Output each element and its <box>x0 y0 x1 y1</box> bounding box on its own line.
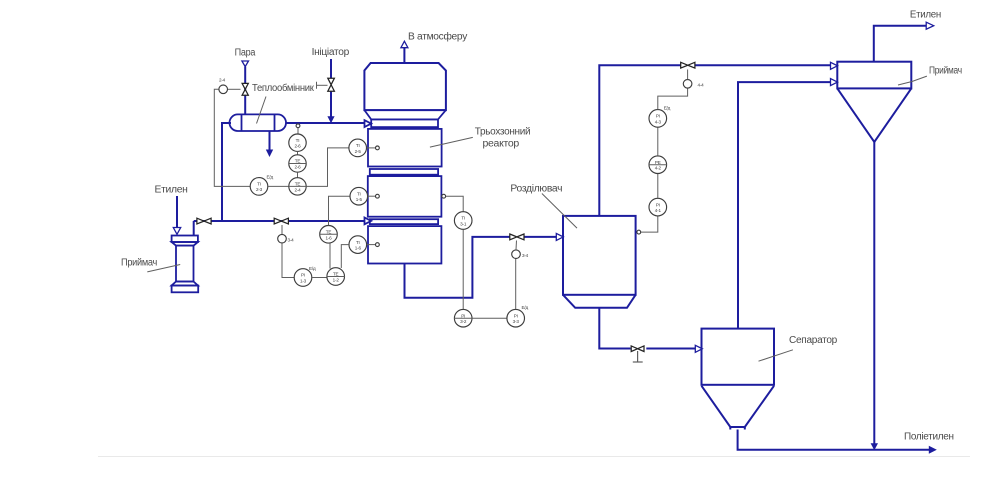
wire between 2-3 and chain bottom <box>268 185 289 187</box>
vessel Розділювач <box>563 216 636 308</box>
wire down <box>462 230 464 310</box>
neck band <box>371 119 438 127</box>
heat exchanger Теплообмінник (capsule) <box>230 114 287 131</box>
wire actuator to valve <box>687 70 689 80</box>
reactor Трьохзонний реактор <box>364 63 446 264</box>
svg-text:ТІ: ТІ <box>357 191 361 196</box>
valve on bottoms line <box>631 346 644 352</box>
svg-text:2-6: 2-6 <box>294 144 301 149</box>
svg-text:ТЕ: ТЕ <box>295 182 301 187</box>
wire: Розділювач bottoms to Сепаратор <box>599 308 630 349</box>
nub on Розділювач right wall <box>637 230 641 234</box>
leader <box>542 194 577 229</box>
arrow: steam inlet open triangle down <box>242 61 249 67</box>
valve stem T <box>637 351 639 362</box>
svg-text:Е/д: Е/д <box>267 175 274 180</box>
arrow: feed into reactor ring B <box>365 218 372 225</box>
arrow: open up <box>401 41 408 48</box>
instrument ТІ 2-5 (zone 1) <box>349 139 367 157</box>
valve V2 (control) on feed header <box>274 218 288 224</box>
wire from chain to zone1 indicator <box>306 148 349 187</box>
wire <box>297 151 299 154</box>
instrument РІ 3-3 <box>507 309 525 327</box>
svg-text:РЕ: РЕ <box>655 160 661 165</box>
arrow: into reactor neck <box>365 120 372 127</box>
wire <box>312 277 327 279</box>
svg-text:3-4: 3-4 <box>288 238 295 243</box>
instrument РІ 3-2 (panel) <box>454 309 472 327</box>
arrow: initiator joins HX outlet line (filled) <box>327 116 334 123</box>
svg-text:Е/д: Е/д <box>309 266 316 271</box>
svg-text:3-3: 3-3 <box>513 319 520 324</box>
wire: HX outlet to reactor top inlet <box>286 122 366 124</box>
arrow: ethylene out (open) <box>926 22 934 29</box>
wire up <box>657 127 659 155</box>
arrow: open V into left receiver <box>173 228 180 235</box>
svg-text:ТІ: ТІ <box>461 216 465 221</box>
valve on initiator line <box>328 78 335 91</box>
instrument РІ 1-3 <box>294 269 312 287</box>
leader <box>898 76 927 85</box>
vessel right receiver (Приймач) <box>837 62 911 142</box>
wire to ТІ 3-1 <box>446 196 463 211</box>
dome <box>364 63 446 110</box>
ring A <box>370 169 438 175</box>
svg-text:2-3: 2-3 <box>256 187 263 192</box>
svg-text:Приймач: Приймач <box>929 66 962 77</box>
svg-text:Е/д: Е/д <box>664 106 671 111</box>
wire+arrow: HX condensate drain (filled down arrow) <box>269 131 271 150</box>
tube sheet lines <box>241 114 243 131</box>
leader line to left receiver <box>147 265 180 272</box>
svg-text:2-4: 2-4 <box>219 78 226 83</box>
valve on steam line (vertical bowtie) <box>242 83 248 95</box>
wire: Розділювач overhead to right receiver <box>599 65 681 216</box>
instrument ТІ 1-6 (zone 3) <box>349 236 367 254</box>
wire up <box>657 174 659 198</box>
vessel Сепаратор <box>702 329 775 430</box>
svg-text:РІ: РІ <box>656 202 660 207</box>
svg-text:ТІ: ТІ <box>356 240 360 245</box>
svg-text:ТІ: ТІ <box>356 143 360 148</box>
wire: valve V2 stem down to actuator <box>281 225 283 234</box>
svg-text:РІ: РІ <box>461 313 465 318</box>
svg-text:ТІ: ТІ <box>296 138 300 143</box>
arrow: filled down into product line <box>871 443 878 450</box>
arrow into right receiver (second) <box>831 79 838 86</box>
svg-text:4-1: 4-1 <box>655 208 662 213</box>
wire ТЕ1-6 down to ТЕ1-2 <box>329 243 331 268</box>
wire ТІ1-6 left and down to ТЕ1-2 <box>341 245 349 268</box>
svg-text:4-3: 4-3 <box>655 119 662 124</box>
wire into zone 2 wall <box>368 195 375 197</box>
nub in zone 1 <box>376 146 380 150</box>
valve 4-4 control valve <box>681 62 695 68</box>
valve 3-4 control valve <box>510 234 524 240</box>
wire: steam line down to HX <box>244 67 246 115</box>
wire into zone 1 wall <box>367 147 376 149</box>
svg-text:Теплообмінник: Теплообмінник <box>252 82 314 94</box>
arrow: polyethylene out (filled) <box>929 446 937 454</box>
svg-text:1-6: 1-6 <box>325 235 332 240</box>
arrow: into Розділювач <box>556 233 563 240</box>
svg-text:РІ: РІ <box>514 313 518 318</box>
svg-text:ТІ: ТІ <box>257 181 261 186</box>
dome bottom transition <box>364 110 446 119</box>
wire to РІ 4-1 <box>641 216 658 232</box>
svg-text:Розділювач: Розділювач <box>510 184 562 195</box>
nub in zone 2 <box>376 194 380 198</box>
wire: Сепаратор bottoms / polyethylene product line <box>738 430 930 450</box>
wire: right receiver overhead ethylene out <box>874 26 927 62</box>
svg-text:Етилен: Етилен <box>910 10 941 21</box>
svg-text:Сепаратор: Сепаратор <box>789 335 838 346</box>
wire from actuator down to flow instruments <box>282 243 294 277</box>
wire ТЕ1-6 up to zone2 indicator <box>329 196 350 225</box>
svg-text:Пара: Пара <box>235 47 256 58</box>
svg-text:2-5: 2-5 <box>355 149 362 154</box>
ring B <box>370 219 438 224</box>
svg-text:1-6: 1-6 <box>355 246 362 251</box>
wire: vent to atmosphere <box>403 48 405 64</box>
svg-text:3-4: 3-4 <box>522 253 529 258</box>
actuator circle 3-4 <box>512 250 521 259</box>
svg-text:1-2: 1-2 <box>333 278 340 283</box>
instrument РІ 4-1 <box>649 198 667 216</box>
wire: Сепаратор overhead to right receiver (second inlet) <box>738 82 835 329</box>
svg-text:Е/д: Е/д <box>522 305 529 310</box>
wire <box>297 172 299 178</box>
wire: initiator line <box>330 59 332 78</box>
nub in zone 3 <box>376 243 380 247</box>
wire: ethylene feed drop into left receiver <box>176 196 178 229</box>
instrument ТІ 2-6 <box>289 134 306 151</box>
instrument ТІ 2-3 <box>250 178 268 196</box>
svg-text:реактор: реактор <box>483 139 520 150</box>
svg-text:3-2: 3-2 <box>460 319 467 324</box>
wire: nub on HX outlet pipe down through chain <box>297 128 299 135</box>
wire up to actuator <box>515 259 517 310</box>
instrument РЕ 4-2 (panel) <box>649 156 667 174</box>
svg-text:Приймач: Приймач <box>121 257 157 268</box>
svg-text:1-5: 1-5 <box>356 197 363 202</box>
instrument ТІ 3-1 <box>454 212 472 230</box>
leader to reactor <box>430 137 473 147</box>
zone 3 <box>368 226 441 263</box>
svg-text:2-4: 2-4 <box>294 187 301 192</box>
zone 2 <box>368 176 442 217</box>
svg-text:3-1: 3-1 <box>460 222 467 227</box>
svg-text:ТЕ: ТЕ <box>295 159 301 164</box>
svg-text:2-6: 2-6 <box>294 165 301 170</box>
instrument ТЕ 2-6 (panel) <box>289 155 306 172</box>
svg-text:4-4: 4-4 <box>698 83 705 88</box>
valve V1 on feed header <box>197 218 211 224</box>
instrument ТЕ 1-6 (panel) <box>320 226 338 244</box>
svg-text:В атмосферу: В атмосферу <box>408 31 467 43</box>
svg-text:Трьохзонний: Трьохзонний <box>475 126 531 137</box>
instrument ТІ 1-5 (zone 2) <box>350 187 368 205</box>
svg-text:1-3: 1-3 <box>300 279 307 284</box>
faint bottom frame line <box>98 456 970 458</box>
wire from actuator 2-4 left and down to chain <box>228 88 241 90</box>
svg-text:ТЕ: ТЕ <box>326 230 332 235</box>
wire: reactor bottom outlet to separator feed <box>405 237 511 298</box>
wire: main ethylene feed header y=221 <box>194 220 366 222</box>
wire actuator to valve <box>515 241 518 250</box>
nub on zone 2 right wall <box>442 194 446 198</box>
svg-text:4-2: 4-2 <box>655 166 662 171</box>
wire: right receiver bottoms down <box>873 142 875 444</box>
wire into zone 3 wall <box>367 244 375 246</box>
instrument ТЕ 2-4 (panel) <box>289 178 306 195</box>
leader <box>759 350 793 361</box>
arrow into right receiver (top) <box>831 62 838 69</box>
nub on pipe <box>296 124 300 128</box>
svg-text:РІ: РІ <box>656 114 660 119</box>
svg-text:Поліетилен: Поліетилен <box>904 431 954 442</box>
leader to HX body <box>257 97 267 124</box>
svg-text:ТЕ: ТЕ <box>333 272 339 277</box>
actuator circle 4-4 <box>683 80 692 89</box>
instrument ТЕ 1-2 (panel) <box>327 268 345 286</box>
svg-text:РІ: РІ <box>301 273 305 278</box>
wire: riser to heat exchanger <box>222 123 231 221</box>
svg-text:Етилен: Етилен <box>155 185 188 196</box>
wire up to actuator 4-4 <box>658 88 688 109</box>
svg-text:Ініціатор: Ініціатор <box>312 47 350 58</box>
instrument FІ 4-3 <box>649 110 667 128</box>
actuator circle 2-4 <box>219 85 228 94</box>
lever on initiator valve <box>317 84 328 86</box>
wire <box>472 317 507 319</box>
vessel: left receiver (Приймач) <box>172 236 199 293</box>
wire: left receiver outlet riser <box>193 221 195 236</box>
zone 1 <box>368 129 442 167</box>
arrow into Сепаратор <box>695 345 702 352</box>
actuator circle 1-4 <box>278 234 287 243</box>
